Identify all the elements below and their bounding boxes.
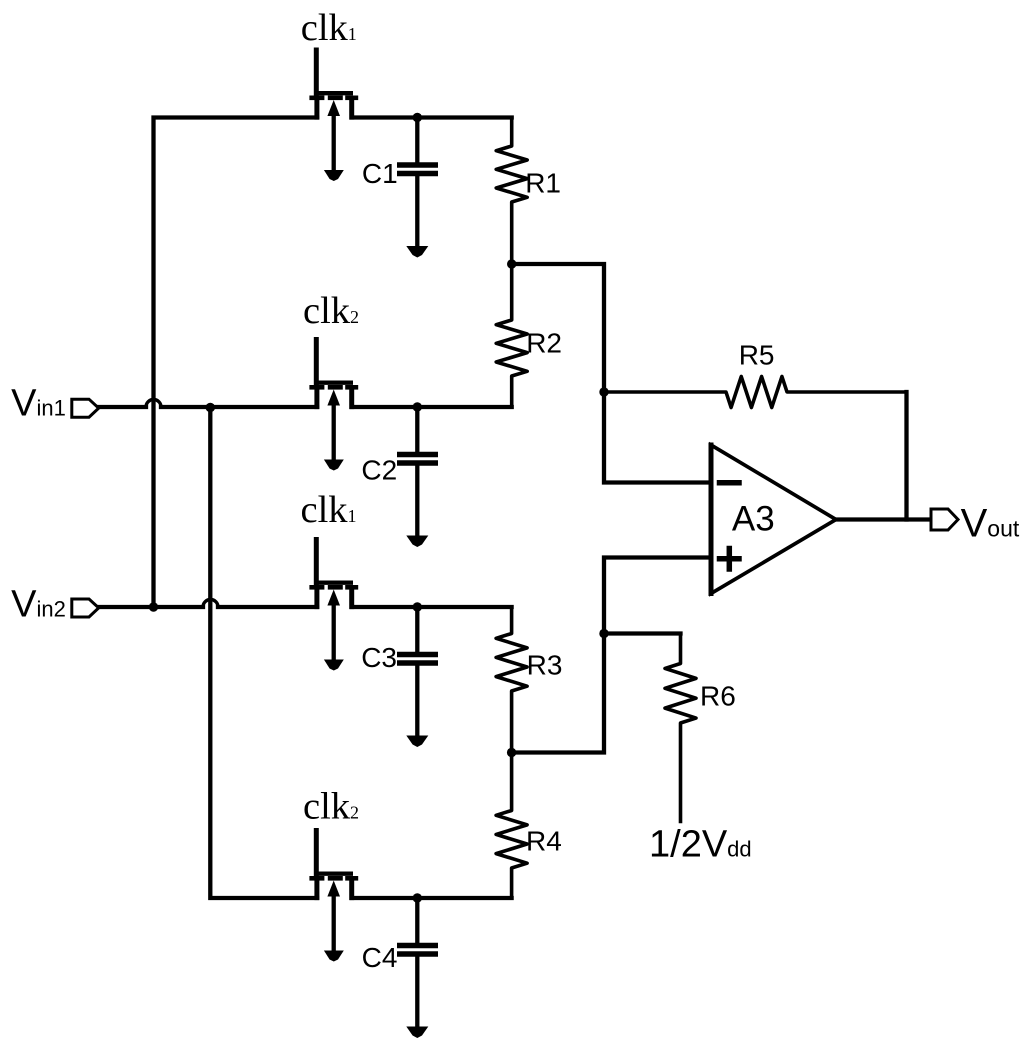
svg-text:R3: R3 — [527, 650, 563, 681]
svg-text:R2: R2 — [526, 327, 562, 358]
resistor R4 — [496, 753, 527, 899]
node: Vin1 riser tap — [206, 403, 215, 412]
capacitor C1 — [397, 118, 438, 258]
resistor R6 — [665, 634, 696, 822]
node: C2 tap on Vin1 rail — [413, 402, 422, 411]
wire: R1/R2 node to op-amp inverting input — [512, 264, 711, 483]
wire: Q2 drain to R2 bottom — [352, 405, 512, 409]
transistor Q4 (clk2 switch) — [309, 828, 358, 962]
node: C4 tap on bottom rail — [413, 893, 422, 902]
node: C1 tap on top rail — [413, 113, 422, 122]
capacitor C2 — [397, 407, 438, 547]
wire: Vin1 riser down to bottom rail, to Q4 source — [210, 407, 317, 898]
port Vin2 — [72, 599, 99, 617]
resistor R1 — [496, 118, 527, 265]
node: R6 tap on non-inverting line — [599, 629, 608, 638]
wire: Vin2 port to hop — [98, 605, 203, 609]
svg-text:R6: R6 — [700, 680, 736, 711]
wire: Q4 drain to R4 bottom — [352, 896, 512, 900]
svg-text:R4: R4 — [526, 826, 562, 857]
svg-text:C3: C3 — [361, 642, 397, 673]
wire: Q3 drain to R3 top — [352, 605, 512, 609]
transistor Q3 (clk1 switch) — [309, 537, 358, 671]
port Vout — [931, 509, 958, 530]
svg-text:R5: R5 — [739, 339, 775, 370]
svg-text:C2: C2 — [361, 455, 397, 486]
capacitor C4 — [397, 898, 438, 1038]
wire: Vin1 port to hop — [98, 405, 146, 409]
svg-text:A3: A3 — [732, 500, 775, 539]
wire: Q1 drain to R1 top — [352, 115, 512, 119]
svg-text:C1: C1 — [362, 158, 398, 189]
node: R1/R2 junction — [507, 259, 516, 268]
port Vin1 — [72, 399, 99, 417]
wire: feedback riser from R5 to output — [904, 392, 908, 520]
wire: R3/R4 node to op-amp non-inverting input — [512, 558, 711, 753]
transistor Q2 (clk2 switch) — [309, 337, 358, 471]
op-amp A3 — [711, 445, 836, 594]
wire hop: Vin2 rail over Vin1 riser — [203, 600, 218, 608]
wire: Vin1 rail to Q2 source — [161, 405, 317, 409]
resistor R5 — [604, 377, 907, 408]
node: C3 tap on Vin2 rail — [413, 602, 422, 611]
resistor R2 — [496, 264, 527, 407]
node: R5 tap on inverting line — [599, 387, 608, 396]
svg-text:R1: R1 — [525, 168, 561, 199]
svg-text:C4: C4 — [362, 942, 398, 973]
wire: non-inverting node to R6 lead — [604, 631, 681, 635]
node: Vin2 riser tap — [149, 602, 158, 611]
wire: top rail with riser from Vin2 node — [154, 118, 318, 608]
resistor R3 — [496, 607, 527, 753]
node: R3/R4 junction — [507, 748, 516, 757]
wire: Vin2 rail to Q3 source — [218, 605, 317, 609]
wire hop: Vin1 rail over Vin2 riser — [146, 400, 161, 407]
transistor Q1 (clk1 switch) — [309, 48, 358, 182]
capacitor C3 — [397, 607, 438, 747]
wire: op-amp output to Vout port — [836, 517, 931, 521]
